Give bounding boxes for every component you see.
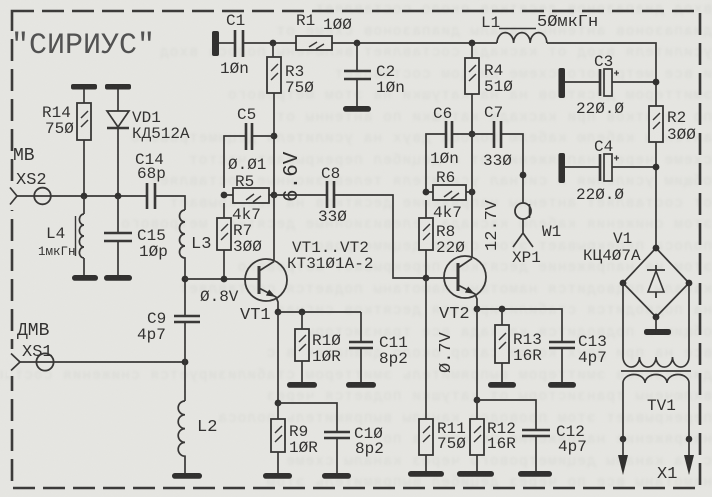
resistor R4 (471, 43, 473, 134)
node C6-C7 (469, 131, 476, 138)
wire base VT1 (185, 278, 258, 280)
wire base VT2 (426, 277, 457, 279)
core L4 (75, 216, 77, 256)
diode VD1 (117, 89, 119, 111)
ground R10 (287, 382, 317, 388)
capacitor C3 electrolytic (565, 81, 656, 83)
node W1 wire (520, 172, 527, 179)
wire R11 from base node (425, 278, 427, 419)
node VD1-C15 (115, 193, 122, 200)
node base VT2 (423, 275, 430, 282)
wire C9 to L2 (184, 322, 186, 401)
capacitor C11 (360, 312, 362, 382)
node R13 top (499, 306, 506, 313)
ground R13 (488, 382, 516, 388)
ground L4 (72, 275, 98, 281)
connector XS1 (11, 354, 20, 371)
resistor R3 (273, 43, 274, 136)
plug XP1 (513, 219, 533, 247)
wire collector rail VT2 (471, 134, 473, 258)
ground C10 (322, 473, 351, 479)
transformer TV1 core (621, 370, 691, 372)
connector XS2 (10, 188, 17, 205)
ground C11 (346, 382, 376, 388)
node R12 top (474, 397, 481, 404)
wire emitter VT2 down (476, 309, 478, 400)
ground C12 (518, 471, 552, 477)
ground C15 (104, 275, 132, 281)
capacitor C8 (274, 195, 426, 278)
resistor R9 (277, 403, 279, 473)
node C5 right (271, 133, 278, 140)
transformer TV1 winding top (623, 357, 689, 367)
inductor L2 (178, 401, 185, 473)
wire V1 right to TV1 (688, 283, 690, 357)
wire top rail (243, 42, 497, 44)
node top C2 (354, 40, 361, 47)
resistor R6 (433, 185, 466, 200)
inductor L4 (79, 196, 84, 275)
node top R3 (270, 40, 277, 47)
transformer TV1 winding bottom (623, 375, 689, 384)
bar terminal C4 (559, 153, 566, 183)
wire emitter VT1 down (277, 312, 279, 403)
resistor R12 (476, 400, 478, 471)
capacitor C7 (472, 134, 523, 203)
wire DMV rail (20, 361, 185, 363)
node top R4 (469, 40, 476, 47)
ground C13 (548, 382, 576, 388)
node emitter VT1 (275, 309, 282, 316)
node R10 top (299, 309, 306, 316)
capacitor C9 (174, 316, 200, 322)
arrow X1 right (688, 439, 690, 458)
capacitor C5 (224, 136, 274, 188)
diode inside V1 (647, 265, 665, 298)
capacitor C2 (356, 43, 358, 106)
wire rail R3-C5-R5 (273, 136, 275, 195)
node R5 left (221, 192, 228, 199)
capacitor C13 (561, 348, 563, 382)
ground R12 (457, 471, 494, 477)
wire emitter VT2 right (477, 309, 562, 342)
ground below V1 (655, 317, 657, 329)
resistor R1 (296, 36, 332, 50)
capacitor C4 electrolytic (565, 166, 656, 168)
wire V1 left to TV1 (622, 283, 624, 357)
node R5 right (271, 192, 278, 199)
bar terminal C3 (559, 68, 566, 98)
resistor R8 (425, 200, 427, 278)
resistor R5 (233, 188, 269, 203)
capacitor C10 (278, 403, 337, 473)
bridge rectifier V1 (623, 248, 689, 317)
node base VT1 left (182, 276, 189, 283)
resistor R13 (501, 309, 503, 382)
ground R9 (263, 473, 292, 479)
capacitor C6 (426, 134, 472, 192)
node R9 top (275, 400, 282, 407)
wires TV1 to X1 (623, 383, 689, 439)
bar terminal above VD1 (105, 84, 131, 90)
node R6 left (423, 189, 430, 196)
inductor L1 (497, 33, 547, 43)
label L1 underline (499, 28, 536, 30)
wire MB rail (17, 195, 147, 197)
paper grain overlay (decorative) (0, 0, 1, 1)
node C3 right (653, 79, 660, 86)
node emitter VT2 (474, 306, 481, 313)
node L4 top (81, 193, 88, 200)
resistor R7 (223, 203, 225, 279)
capacitor C15 (117, 196, 119, 275)
node R6 right (469, 189, 476, 196)
wire collector rail VT1 (273, 195, 275, 261)
terminal bar input (212, 31, 219, 56)
ground L2 (172, 473, 202, 479)
node C4 right (653, 164, 660, 171)
socket W1 (515, 203, 531, 219)
wire top rail right + right rail down (547, 43, 656, 248)
resistor R14 (83, 89, 85, 196)
bar terminal above R14 (71, 84, 97, 90)
border gaps at connectors (7, 183, 16, 210)
inductor L3 (180, 210, 186, 316)
ground R11 (408, 471, 444, 477)
resistor R2 (649, 106, 663, 142)
resistor R11 (419, 419, 433, 455)
arrow X1 left (622, 439, 624, 458)
capacitor C12 (477, 400, 536, 471)
resistor R10 (301, 312, 303, 382)
ground C2 (343, 106, 371, 112)
capacitor C1 (235, 30, 243, 57)
wire top rail left (219, 42, 235, 44)
transistor VT2 (444, 256, 486, 298)
node XS1-L2 (182, 359, 189, 366)
transistor VT1 (245, 259, 287, 301)
wire emitter VT1 right (278, 311, 361, 313)
node R7 bottom (221, 276, 228, 283)
capacitor C14 (147, 183, 155, 209)
